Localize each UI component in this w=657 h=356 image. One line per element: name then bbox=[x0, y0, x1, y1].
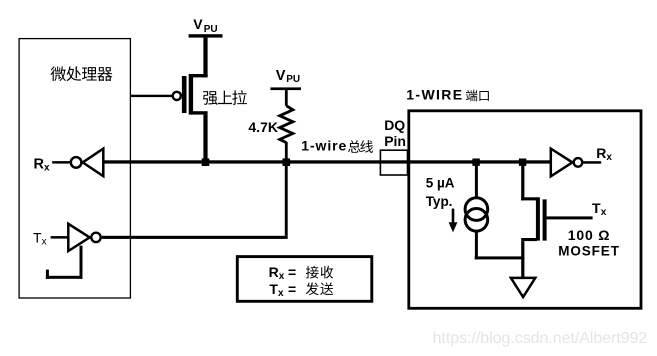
svg-text:x: x bbox=[601, 207, 607, 218]
svg-text:100 Ω: 100 Ω bbox=[568, 227, 610, 243]
svg-text:R: R bbox=[596, 145, 606, 161]
svg-text:PU: PU bbox=[286, 74, 300, 85]
svg-text:4.7K: 4.7K bbox=[248, 119, 278, 135]
svg-text:R: R bbox=[34, 156, 45, 172]
svg-text:DQ: DQ bbox=[384, 117, 405, 133]
svg-text:T: T bbox=[592, 200, 601, 216]
svg-text:1-wire: 1-wire bbox=[301, 138, 347, 154]
svg-text:R: R bbox=[269, 264, 279, 280]
svg-text:Pin: Pin bbox=[384, 133, 406, 149]
svg-text:5 µA: 5 µA bbox=[426, 175, 455, 190]
svg-text:x: x bbox=[42, 237, 47, 248]
svg-text:PU: PU bbox=[204, 24, 218, 35]
svg-text:=: = bbox=[288, 264, 296, 280]
svg-text:x: x bbox=[279, 271, 285, 282]
svg-text:V: V bbox=[276, 68, 286, 84]
svg-text:MOSFET: MOSFET bbox=[558, 244, 620, 259]
svg-text:x: x bbox=[606, 152, 612, 163]
svg-text:=: = bbox=[288, 281, 296, 297]
svg-text:V: V bbox=[193, 16, 203, 32]
svg-text:https://blog.csdn.net/Albert99: https://blog.csdn.net/Albert992 bbox=[433, 330, 648, 347]
svg-text:x: x bbox=[44, 162, 50, 173]
svg-text:1-WIRE: 1-WIRE bbox=[406, 86, 463, 102]
svg-text:Typ.: Typ. bbox=[426, 194, 453, 209]
svg-text:x: x bbox=[278, 288, 284, 299]
